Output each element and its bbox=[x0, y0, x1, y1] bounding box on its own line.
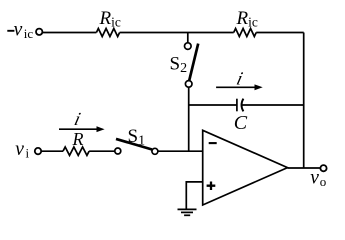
svg-text:Ric: Ric bbox=[99, 8, 121, 30]
svg-text:vi: vi bbox=[15, 139, 29, 161]
svg-text:ic: ic bbox=[24, 26, 34, 41]
label i top bbox=[234, 69, 244, 90]
wire input middle bbox=[89, 150, 115, 152]
terminal -vic bbox=[36, 29, 42, 35]
wire top-middle bbox=[120, 32, 234, 34]
wire node vertical bbox=[188, 87, 190, 151]
svg-text:S2: S2 bbox=[170, 54, 188, 77]
svg-text:C: C bbox=[234, 112, 248, 134]
wire top-left bbox=[43, 32, 97, 34]
wire feedback right bbox=[242, 104, 304, 106]
op-amp U1 bbox=[203, 130, 288, 205]
label i input bbox=[72, 109, 82, 130]
svg-text:Ric: Ric bbox=[236, 8, 258, 30]
current arrow i (top) bbox=[216, 86, 255, 88]
capacitor C bbox=[236, 99, 238, 112]
wire output bbox=[288, 167, 321, 169]
resistor Ric (left) bbox=[96, 29, 119, 37]
svg-text:R: R bbox=[72, 129, 84, 149]
wire top-right bbox=[256, 32, 304, 34]
wire feedback left bbox=[189, 104, 237, 106]
svg-text:v: v bbox=[14, 19, 23, 40]
wire input right bbox=[158, 150, 203, 152]
resistor R bbox=[63, 147, 89, 155]
wire input left bbox=[41, 150, 63, 152]
current arrow i (input) bbox=[59, 128, 97, 130]
svg-text:i: i bbox=[72, 109, 82, 130]
svg-text:i: i bbox=[234, 69, 244, 90]
wire plus input bbox=[186, 182, 202, 209]
svg-text:S1: S1 bbox=[128, 126, 146, 149]
switch S1 bbox=[115, 148, 121, 154]
resistor Ric (right) bbox=[234, 29, 257, 37]
wire right vertical bbox=[303, 33, 305, 169]
ground bbox=[178, 208, 197, 210]
terminal vo bbox=[320, 165, 326, 171]
label -vic bbox=[7, 30, 14, 32]
wire S2 stub bbox=[187, 33, 189, 43]
switch S2 bbox=[185, 43, 192, 50]
terminal vi bbox=[35, 148, 41, 154]
